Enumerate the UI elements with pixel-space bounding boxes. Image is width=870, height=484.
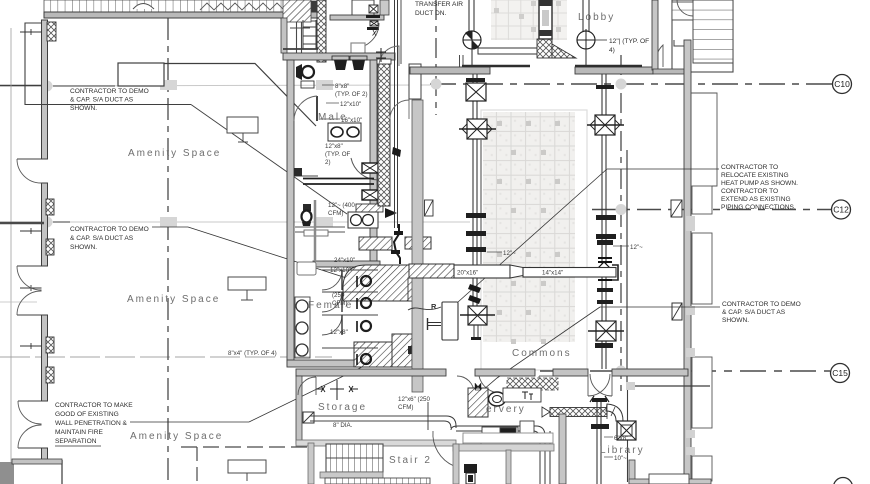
dim 12 right mid bbox=[613, 244, 643, 251]
svg-text:CFM): CFM) bbox=[328, 210, 343, 217]
svg-text:SHOWN.: SHOWN. bbox=[722, 317, 749, 324]
svg-text:12"~: 12"~ bbox=[630, 244, 643, 251]
servery area bbox=[468, 378, 558, 417]
svg-text:Amenity Space: Amenity Space bbox=[128, 148, 221, 159]
svg-text:Lobby: Lobby bbox=[578, 12, 615, 23]
male room fixtures bbox=[294, 56, 379, 226]
svg-text:CONTRACTOR TO DEMO: CONTRACTOR TO DEMO bbox=[70, 226, 149, 233]
wall stub above restroom bbox=[281, 18, 287, 53]
flex duct to library bbox=[542, 404, 636, 440]
svg-text:& CAP. S/A DUCT AS: & CAP. S/A DUCT AS bbox=[70, 235, 134, 242]
bottom right walls bbox=[629, 460, 711, 484]
dashed partition bottom bbox=[181, 447, 310, 484]
svg-text:12"| (TYP. OF: 12"| (TYP. OF bbox=[609, 38, 649, 45]
svg-text:12"x8": 12"x8" bbox=[330, 329, 348, 336]
demolished duct route line bbox=[164, 64, 316, 127]
corridor walls commons bbox=[626, 150, 710, 482]
flex pipe curve bbox=[394, 224, 400, 264]
svg-text:SEPARATION: SEPARATION bbox=[55, 438, 97, 445]
diffuser bottom left bbox=[460, 306, 495, 340]
grid node squares bbox=[42, 79, 627, 377]
lobby riser pump 2 bbox=[577, 29, 595, 51]
svg-text:CFM): CFM) bbox=[332, 300, 347, 307]
svg-text:CONTRACTOR TO: CONTRACTOR TO bbox=[721, 164, 778, 171]
hatched duct above divider bbox=[359, 237, 431, 250]
hatched elbow E1 bbox=[343, 265, 413, 301]
svg-text:& CAP. S/A DUCT AS: & CAP. S/A DUCT AS bbox=[70, 97, 134, 104]
svg-text:C10: C10 bbox=[834, 79, 850, 89]
valve top bbox=[466, 83, 486, 101]
svg-text:6"x8": 6"x8" bbox=[614, 435, 628, 442]
furniture table 2 bbox=[228, 277, 266, 300]
ceiling grid lobby bbox=[491, 0, 567, 40]
left bottom wall band bbox=[12, 459, 62, 464]
wall tick arrows bbox=[20, 29, 42, 349]
chase column hatched bbox=[317, 0, 326, 62]
label 12 typ of 4 bbox=[595, 38, 649, 54]
svg-text:Stair 2: Stair 2 bbox=[389, 455, 432, 466]
diffuser top right bbox=[587, 115, 624, 135]
top right stair bbox=[652, 0, 733, 74]
female room fixtures bbox=[295, 270, 378, 365]
ceiling grid commons bbox=[481, 110, 587, 370]
svg-text:CFM): CFM) bbox=[398, 404, 413, 411]
male dims bbox=[320, 83, 368, 217]
svg-text:10"~: 10"~ bbox=[614, 455, 627, 462]
hatched elbow E2 bbox=[354, 278, 422, 367]
heat pump R box bbox=[408, 302, 458, 340]
svg-text:8"x8": 8"x8" bbox=[335, 83, 349, 90]
svg-text:12"~: 12"~ bbox=[503, 250, 516, 257]
grid bubble C12 bbox=[832, 200, 851, 219]
svg-text:4): 4) bbox=[609, 47, 615, 54]
svg-text:8"x4" (TYP. OF 4): 8"x4" (TYP. OF 4) bbox=[228, 350, 277, 357]
furniture table 1 bbox=[227, 117, 258, 142]
svg-text:12"x10": 12"x10" bbox=[330, 267, 351, 274]
door arc lobby right bbox=[656, 45, 663, 67]
lobby pipes vertical bbox=[469, 0, 589, 68]
svg-text:(TYP. OF 2): (TYP. OF 2) bbox=[335, 91, 368, 98]
svg-text:C15: C15 bbox=[832, 368, 848, 378]
svg-text:CONTRACTOR TO: CONTRACTOR TO bbox=[721, 188, 778, 195]
top stair band bbox=[44, 0, 318, 56]
riser ladder above male bbox=[283, 20, 318, 49]
svg-text:SHOWN.: SHOWN. bbox=[70, 244, 97, 251]
top stair diagonal bbox=[283, 0, 374, 22]
diffuser top left bbox=[459, 119, 496, 139]
grid dashed vertical C bbox=[620, 55, 622, 395]
svg-text:14"x14": 14"x14" bbox=[542, 270, 563, 277]
svg-text:EXTEND AS EXISTING: EXTEND AS EXISTING bbox=[721, 196, 791, 203]
kitchen equipment bbox=[463, 421, 534, 446]
svg-text:12"x8": 12"x8" bbox=[325, 143, 343, 150]
top walls y68 bbox=[410, 66, 653, 74]
cross symbol storage bbox=[316, 380, 358, 400]
grid line C15 bbox=[540, 370, 830, 372]
duct riser male bbox=[348, 204, 397, 228]
grid line C10 bbox=[0, 84, 833, 86]
leader line L1 bbox=[191, 105, 347, 215]
svg-text:24"x10": 24"x10" bbox=[334, 257, 355, 264]
heat pump note bbox=[458, 164, 798, 302]
storage room bbox=[296, 376, 456, 446]
grid dashed vertical A bbox=[167, 18, 169, 484]
svg-text:Amenity Space: Amenity Space bbox=[130, 431, 223, 442]
svg-text:Male: Male bbox=[318, 112, 348, 123]
svg-text:HEAT PUMP AS SHOWN.: HEAT PUMP AS SHOWN. bbox=[721, 180, 798, 187]
kitchen walls bbox=[453, 433, 554, 484]
svg-text:2): 2) bbox=[325, 159, 331, 166]
dim 12 left bbox=[487, 250, 516, 257]
lobby dark column bbox=[539, 0, 552, 39]
lib right wall step bbox=[559, 414, 566, 484]
svg-text:(TYP. OF: (TYP. OF bbox=[325, 151, 351, 158]
storage duct note bbox=[398, 396, 430, 430]
svg-text:Commons: Commons bbox=[512, 348, 572, 359]
svg-text:12"x10": 12"x10" bbox=[340, 101, 361, 108]
grid bubble bottom right partial bbox=[834, 478, 853, 484]
svg-text:RELOCATE EXISTING: RELOCATE EXISTING bbox=[721, 172, 789, 179]
door arcs left wall bbox=[17, 159, 42, 448]
corridor chase bbox=[376, 0, 433, 392]
grid bubble C10 bbox=[833, 75, 852, 94]
transfer air note bbox=[415, 1, 463, 17]
lobby riser pump 1 bbox=[463, 30, 481, 49]
svg-text:MAINTAIN FIRE: MAINTAIN FIRE bbox=[55, 429, 103, 436]
kitchen ducts bbox=[430, 416, 550, 484]
demo cap note 3 bbox=[483, 301, 801, 390]
floor box fixture bbox=[464, 464, 477, 484]
svg-text:& CAP. S/A DUCT AS: & CAP. S/A DUCT AS bbox=[722, 309, 786, 316]
svg-text:8" DIA.: 8" DIA. bbox=[333, 422, 353, 429]
commons pipes left bbox=[466, 74, 486, 310]
svg-text:SHOWN.: SHOWN. bbox=[70, 105, 97, 112]
library bbox=[590, 396, 645, 484]
diffuser bottom right bbox=[588, 321, 624, 341]
bottom walls y371 bbox=[296, 369, 688, 396]
svg-text:C12: C12 bbox=[833, 205, 849, 215]
restroom block walls bbox=[283, 53, 395, 367]
svg-text:Amenity Space: Amenity Space bbox=[127, 294, 220, 305]
lobby left wall stub bbox=[460, 55, 464, 74]
demo duct box left bbox=[25, 23, 191, 105]
svg-text:CONTRACTOR TO DEMO: CONTRACTOR TO DEMO bbox=[722, 301, 801, 308]
annotation demo cap 1 bbox=[53, 86, 149, 112]
furniture table 3 bbox=[228, 460, 266, 481]
bottom left corner block bbox=[0, 460, 62, 484]
grid dashed vertical B bbox=[435, 0, 437, 115]
left thin property line bbox=[10, 28, 12, 484]
right exterior wall bbox=[674, 40, 717, 481]
svg-text:ervery: ervery bbox=[486, 404, 526, 415]
duct size line 8x4 bbox=[0, 350, 332, 357]
svg-text:CONTRACTOR TO DEMO: CONTRACTOR TO DEMO bbox=[70, 88, 149, 95]
svg-text:DUCT DN.: DUCT DN. bbox=[415, 10, 447, 17]
svg-text:CONTRACTOR TO MAKE: CONTRACTOR TO MAKE bbox=[55, 402, 133, 409]
svg-text:20"x16": 20"x16" bbox=[457, 270, 478, 277]
svg-text:GOOD OF EXISTING: GOOD OF EXISTING bbox=[55, 411, 119, 418]
grid bubble C15 bbox=[831, 364, 850, 383]
commons pipes right bbox=[595, 74, 616, 369]
female dims bbox=[330, 257, 355, 336]
annotation demo cap 2 bbox=[53, 222, 390, 292]
svg-text:Storage: Storage bbox=[318, 402, 367, 413]
svg-text:12"x6" (250: 12"x6" (250 bbox=[398, 396, 430, 403]
svg-text:(250: (250 bbox=[332, 292, 345, 299]
duct outline amenity1 bbox=[118, 63, 164, 86]
top wall male room bbox=[330, 0, 389, 57]
heat pump symbol bbox=[671, 200, 682, 217]
main duct horizontal bbox=[409, 264, 618, 280]
grid line C12 bbox=[0, 210, 831, 223]
stair2 bbox=[308, 431, 454, 484]
svg-text:PIPING CONNECTIONS.: PIPING CONNECTIONS. bbox=[721, 204, 796, 211]
heat pump unit 2 bbox=[672, 303, 682, 320]
svg-text:12"~ (400: 12"~ (400 bbox=[328, 202, 355, 209]
lobby duct bbox=[478, 39, 576, 58]
svg-text:WALL PENETRATION &: WALL PENETRATION & bbox=[55, 420, 128, 427]
left exterior wall bbox=[0, 20, 48, 462]
annotation make good bbox=[55, 367, 362, 446]
svg-text:TRANSFER AIR: TRANSFER AIR bbox=[415, 1, 463, 8]
wall mullion blocks bbox=[46, 22, 56, 383]
